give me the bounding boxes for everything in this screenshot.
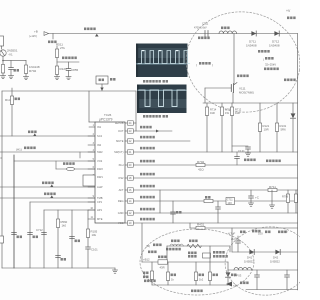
small connector box left edge: [0, 236, 4, 243]
svg-text:27k: 27k: [60, 46, 65, 50]
capacitor C707: [250, 190, 252, 196]
svg-text:1N5408: 1N5408: [246, 44, 257, 48]
svg-text:(H): (H): [146, 244, 150, 248]
capacitor C41: [256, 270, 258, 275]
caption waveform 2: [143, 115, 161, 118]
resistor R714: [206, 103, 208, 107]
svg-text:R714: R714: [210, 108, 217, 112]
svg-text:C121: C121: [238, 149, 245, 153]
svg-text:1k2: 1k2: [199, 278, 204, 282]
caption below: [191, 290, 203, 293]
wire bus 190: [133, 189, 297, 191]
capacitor C101: [86, 247, 91, 249]
svg-text:(: (: [263, 58, 264, 62]
wire bias line: [3, 60, 26, 62]
svg-text:R702: R702: [29, 69, 37, 73]
wire bus 228 partial: [190, 227, 298, 229]
svg-text:MTE: MTE: [97, 217, 103, 221]
highlight ellipse top right (dashed): [180, 5, 307, 120]
wire: [1, 46, 3, 49]
inductor L-F03: [234, 267, 252, 270]
caption inside ellipse A: [144, 280, 156, 283]
wire row141: [133, 140, 190, 142]
svg-text:R13: R13: [5, 98, 11, 102]
wire drop from bus228: [141, 223, 143, 262]
svg-text:VO2: VO2: [97, 159, 103, 163]
svg-text:R702: R702: [197, 160, 205, 164]
svg-text:MOS(7N60): MOS(7N60): [239, 91, 254, 95]
wire bus 213: [133, 212, 297, 214]
amplitude adjust box: [96, 76, 108, 84]
capacitor C72: [70, 237, 75, 239]
svg-text:1N5408: 1N5408: [269, 44, 280, 48]
svg-text:OS2: OS2: [118, 176, 124, 180]
capacitor C706 link bus152-165: [236, 152, 238, 157]
wire jog to coil row: [55, 161, 57, 169]
wire pin24 stub: [133, 122, 136, 124]
capacitor C121 cluster: [232, 145, 248, 147]
resistor R709 drop: [151, 262, 153, 271]
wire H drive out row: [133, 130, 172, 132]
resistor R704: [195, 262, 197, 272]
wire gate drop: [204, 88, 206, 103]
svg-text:C712: C712: [36, 228, 43, 232]
wire +B supply rail y=33.5: [49, 33, 298, 35]
wire MOSFET source down: [232, 93, 234, 104]
svg-text:R706: R706: [282, 195, 289, 199]
small box component: [203, 253, 211, 258]
oscilloscope inset panel 1: [136, 44, 190, 78]
resistor R705: [209, 262, 211, 272]
svg-text:-V1: -V1: [8, 53, 13, 57]
capacitor C801: [10, 61, 12, 68]
wire regulator upper branch: [167, 245, 230, 247]
HV board supply labels: [244, 159, 256, 162]
wire: [57, 61, 79, 63]
wire diode row: [232, 251, 298, 253]
transistor Q-V111 MOSFET: [205, 83, 237, 93]
svg-text:DW1: DW1: [97, 175, 103, 179]
oscilloscope inset panel 2: [137, 85, 187, 114]
resistor R123: [55, 66, 58, 75]
resistor R707: [295, 190, 297, 194]
wire net H-sync: [0, 151, 95, 153]
capacitor C708: [28, 233, 33, 235]
svg-text:GND: GND: [118, 211, 124, 215]
svg-text:1W: 1W: [225, 111, 229, 115]
wire net x30: [30, 201, 95, 203]
svg-text:SW2: SW2: [97, 150, 103, 154]
svg-text:103: 103: [228, 202, 233, 205]
wire bus 201: [133, 200, 297, 202]
wire bracket: [79, 152, 81, 158]
wire from box: [101, 84, 103, 91]
svg-text:CP1: CP1: [97, 200, 103, 204]
resistor R703: [167, 262, 169, 272]
capacitor C705 lower: [56, 256, 61, 258]
svg-text:1N5822: 1N5822: [270, 260, 280, 264]
svg-text:DW2: DW2: [97, 167, 103, 171]
wire net band switch: [0, 197, 95, 199]
resistor R431 on bus228: [196, 226, 205, 229]
wire left edge vertical: [1, 91, 3, 268]
wire bus 223: [133, 222, 297, 224]
inductor L511 on rail: [221, 27, 230, 30]
wire drop panel column: [135, 91, 137, 131]
wire ground bus: [2, 267, 115, 269]
svg-text:+B: +B: [284, 230, 288, 234]
wire arrow head into +B rail: [44, 32, 49, 36]
capacitor C42: [286, 270, 288, 275]
svg-text:+B12: +B12: [143, 258, 150, 262]
resistor R1: [2, 61, 4, 65]
svg-text:91R: 91R: [235, 111, 240, 115]
diode D711: [251, 31, 256, 36]
svg-text:1k0: 1k0: [62, 224, 67, 228]
wire emitter down: [2, 56, 4, 60]
node +B boost label: [84, 28, 96, 31]
wire regulator line: [142, 261, 228, 263]
ground main: [114, 268, 116, 270]
wire bottom rail A: [152, 284, 228, 286]
caption waveform 1: [143, 80, 161, 83]
svg-text:R431: R431: [197, 223, 205, 227]
wire filter row: [228, 269, 298, 271]
svg-text:IN1: IN1: [97, 125, 102, 129]
svg-text:+V: +V: [286, 9, 291, 13]
inductor L751: [171, 240, 180, 243]
svg-text:(+12V): (+12V): [29, 34, 37, 38]
wire net x72: [71, 210, 73, 268]
svg-text:AFT: AFT: [119, 188, 124, 192]
inductor L10: [67, 167, 75, 170]
brightness adjust label: [62, 57, 77, 60]
resistor R703 on bus201: [204, 199, 213, 202]
highlight ellipse B: [221, 222, 315, 300]
svg-text:R711: R711: [269, 185, 276, 189]
svg-text:+B: +B: [233, 284, 237, 288]
resistor R121: [259, 103, 261, 123]
resistor R751 box: [158, 260, 168, 264]
svg-text:SW(CT): SW(CT): [114, 150, 123, 154]
svg-text:(: (: [196, 63, 197, 67]
label rows under branch: [166, 248, 181, 251]
svg-text:VCC: VCC: [118, 221, 124, 225]
svg-text:TC26: TC26: [104, 113, 112, 117]
svg-text:): ): [212, 63, 213, 67]
wire drop to IC pin1: [88, 91, 90, 122]
svg-text:10k: 10k: [92, 233, 97, 237]
wire net x58 down from 210: [57, 210, 59, 268]
svg-text:OUT: OUT: [118, 129, 124, 133]
svg-text:+B: +B: [34, 30, 38, 34]
pin number boxes right: [128, 121, 134, 225]
resistor R560 on x58: [56, 219, 59, 228]
diode D42: [275, 249, 280, 254]
IC internal pin names right: [114, 121, 124, 225]
IC pin stubs left: [88, 127, 95, 219]
svg-text:42Ω: 42Ω: [198, 168, 204, 172]
diode D41: [249, 249, 254, 254]
wire bus 165: [133, 164, 297, 166]
wire vertical x14: [13, 155, 15, 268]
svg-text:μPC1379: μPC1379: [99, 118, 113, 122]
resistor R711 on bus190: [268, 188, 277, 191]
wire net x44: [44, 209, 95, 211]
resistor R702 on bus165: [196, 163, 205, 166]
wire right edge vertical: [297, 34, 299, 291]
capacitor C704: [12, 233, 17, 235]
svg-text:91R: 91R: [210, 111, 215, 115]
resistor R752 zigzag: [189, 240, 198, 243]
wire bus 178: [133, 177, 297, 179]
wire HV top line: [203, 102, 298, 104]
svg-text:X1H: X1H: [118, 163, 123, 167]
svg-text:R712: R712: [235, 108, 242, 112]
svg-text:TMB: TMB: [97, 196, 103, 200]
wire bottom rail B: [246, 289, 298, 291]
connector box on IC left: [83, 175, 95, 186]
svg-text:SC2: SC2: [97, 134, 103, 138]
wire junction verticals: [166, 246, 168, 262]
capacitor C855: [68, 62, 70, 69]
wire bus 152: [133, 151, 297, 153]
HV insulation label: [237, 75, 249, 78]
capacitor C713 link bus201-223: [217, 201, 219, 207]
resistor R13 column: [11, 88, 13, 96]
svg-text:C101: C101: [91, 248, 98, 252]
wire net tuner: [0, 186, 95, 188]
resistor R712: [231, 103, 233, 107]
component box C711: [226, 198, 235, 205]
svg-text:43R: 43R: [160, 266, 165, 270]
labels under bus228: [252, 230, 261, 233]
regulator box: [0, 36, 4, 46]
IC pin numbers left: [90, 124, 94, 219]
capacitor C712: [42, 233, 47, 235]
svg-text:LEVOB: LEVOB: [115, 121, 124, 125]
svg-text:1N5822: 1N5822: [244, 260, 254, 264]
resistor R715: [221, 103, 223, 107]
wire link bus190-213: [159, 190, 161, 213]
capacitor C412: [237, 236, 239, 241]
transistor V1 2N5551: [0, 50, 6, 56]
diode D121 vertical: [292, 103, 294, 113]
wire drop to MOSFET drain: [233, 34, 235, 85]
svg-text:HP1: HP1: [97, 208, 103, 212]
diode D712: [274, 31, 279, 36]
svg-text:L-F03: L-F03: [234, 274, 242, 278]
wire drop from bus228 to diode row: [231, 228, 233, 252]
output arrow +B: [226, 282, 232, 287]
svg-text:5R6: 5R6: [281, 128, 287, 132]
resistor R702 with diode label: [25, 61, 27, 66]
ground: [0, 76, 5, 79]
svg-text:IN2: IN2: [97, 143, 102, 147]
wire net AGC: [0, 135, 95, 137]
below IC chain: resistor R105: [87, 210, 89, 229]
wire main horizontal y=91: [2, 90, 136, 92]
svg-text:MUTE: MUTE: [116, 139, 124, 143]
svg-text:(H1): (H1): [16, 148, 22, 152]
op-amp U1 body: [95, 122, 125, 223]
svg-text:32+25kV: 32+25kV: [265, 63, 276, 67]
node B+ stub: [52, 34, 54, 40]
IC pin stubs right with number boxes: [125, 123, 128, 223]
resistor R131: [276, 103, 278, 123]
svg-text:10R: 10R: [264, 128, 269, 132]
svg-text:REG: REG: [118, 199, 124, 203]
IC internal pin names left: [97, 125, 103, 221]
svg-text:C855: C855: [71, 68, 79, 72]
capacitor C710 link bus201-223: [172, 201, 174, 212]
zener DW drop: [227, 262, 229, 272]
svg-text:ALW: ALW: [97, 185, 103, 189]
wire net with inductor L10: [14, 160, 95, 162]
ground mid right: [271, 190, 273, 205]
resistor R706: [287, 190, 289, 194]
highlight ellipse A: [140, 229, 254, 295]
HV rectifier label: [258, 50, 270, 53]
node junction: [2, 60, 4, 62]
